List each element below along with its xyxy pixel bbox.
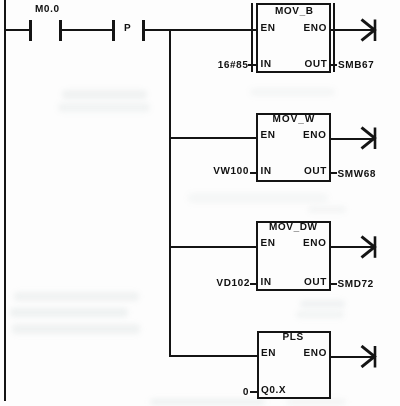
value VD102 [216,279,250,289]
box MOV_W [256,113,331,182]
wire M0.0 to P contact [62,29,113,31]
wire ENO to arrow 1 [331,29,375,31]
pin IN of MOV_DW [261,278,272,288]
branch vertical line [169,29,171,357]
box MOV_DW [256,221,331,291]
pin ENO of MOV_DW [303,239,326,249]
pin ENO of MOV_W [303,131,326,141]
label SMB67 [338,61,374,71]
title MOV_W [273,115,316,125]
pin ENO of PLS [304,349,327,359]
wire 16#85 to IN [248,64,256,66]
wire ENO to arrow 2 [331,138,375,140]
wire 0 to Q0.X [250,391,257,393]
left power rail [4,0,6,401]
scan bleed-through ghost marks (background) [62,90,147,99]
title PLS [283,333,304,343]
pin EN of MOV_B [261,24,276,34]
box PLS [257,331,332,399]
label SMW68 [338,170,377,180]
value VW100 [213,167,249,177]
pin EN of PLS [261,349,276,359]
wire OUT to SMB67 [331,64,337,66]
wire VD102 to IN [250,283,256,285]
value 16#85 [218,61,249,71]
wire rail to contact M0.0 [6,29,30,31]
wire P to MOV_B EN [145,29,257,31]
wire branch to MOV_W EN [170,137,256,139]
title MOV_B [275,7,314,17]
pin Q0.X of PLS [261,386,286,396]
pin IN of MOV_B [261,60,272,70]
wire ENO to arrow 3 [331,246,375,248]
pin EN of MOV_DW [261,239,276,249]
pin OUT of MOV_W [304,167,327,177]
pin OUT of MOV_DW [304,278,327,288]
pin OUT of MOV_B [305,60,328,70]
pin ENO of MOV_B [304,24,327,34]
wire branch to MOV_DW EN [170,246,256,248]
pin EN of MOV_W [261,131,276,141]
title MOV_DW [269,223,318,233]
wire branch to PLS EN [170,355,257,357]
label SMD72 [338,280,374,290]
wire OUT to SMD72 [331,283,337,285]
contact M0.0 [29,20,32,41]
value 0 [243,388,249,398]
contact P (positive transition) [112,20,115,41]
pin IN of MOV_W [261,167,272,177]
wire VW100 to IN [250,172,257,174]
wire OUT to SMW68 [331,172,337,174]
wire ENO to arrow 4 [331,356,375,358]
box MOV_B [256,3,331,73]
